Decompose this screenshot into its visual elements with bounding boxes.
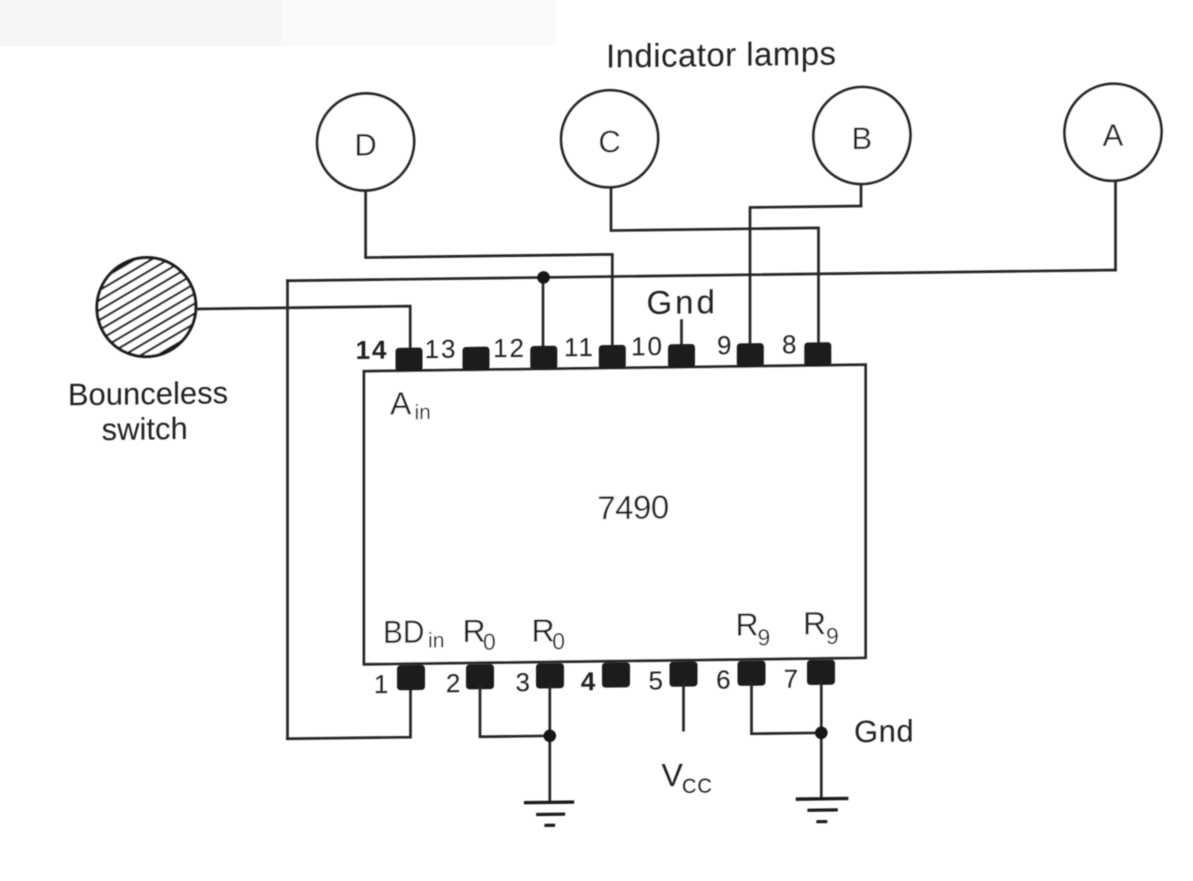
IC U1 7490 body bbox=[364, 365, 866, 665]
svg-text:4: 4 bbox=[581, 666, 596, 696]
svg-text:1: 1 bbox=[374, 669, 388, 699]
indicator lamp C bbox=[561, 90, 658, 188]
wire: switch to pin 14 bbox=[196, 306, 411, 359]
pin 1 bbox=[374, 665, 425, 699]
wire: lamp C to pin 8 bbox=[611, 185, 819, 354]
wire: lamp A drop bbox=[1114, 181, 1117, 270]
wire: bus left vertical bbox=[286, 281, 289, 739]
ground symbol (left) bbox=[526, 802, 573, 826]
svg-text:switch: switch bbox=[102, 411, 188, 447]
svg-text:R: R bbox=[532, 612, 555, 648]
pin 14 bbox=[356, 334, 423, 372]
pin 3 bbox=[516, 663, 564, 697]
svg-text:R: R bbox=[736, 606, 759, 642]
svg-text:Bounceless: Bounceless bbox=[68, 375, 228, 412]
pin 8 bbox=[782, 329, 831, 367]
pin 5 bbox=[649, 661, 698, 695]
svg-text:7: 7 bbox=[784, 664, 798, 694]
label: R0 (pin 2 function) bbox=[463, 613, 496, 655]
svg-text:C: C bbox=[598, 124, 620, 159]
svg-text:11: 11 bbox=[564, 332, 595, 362]
wire: pin 6 to pin 7 ground node bbox=[752, 682, 822, 733]
svg-text:A: A bbox=[1103, 118, 1124, 153]
svg-text:A: A bbox=[390, 385, 412, 421]
label: BDin (pin 1 function) bbox=[383, 613, 445, 653]
wire: bottom run to pin 1 bbox=[288, 688, 411, 739]
wire: pin 10 ground stub bbox=[680, 321, 683, 354]
wire: pin 3 to ground bbox=[548, 686, 551, 803]
svg-text:V: V bbox=[662, 757, 684, 793]
bounceless switch S1 bbox=[68, 257, 228, 448]
svg-text:in: in bbox=[428, 629, 445, 652]
wire: pin 7 to ground bbox=[820, 682, 823, 799]
wire: lamp B to pin 9 bbox=[750, 184, 861, 352]
wire: lamp D to pin 11 bbox=[366, 188, 613, 358]
pin 13 bbox=[425, 333, 490, 371]
pin 4 bbox=[581, 662, 630, 696]
wire: pin 12 to bus junction bbox=[542, 277, 545, 355]
svg-text:8: 8 bbox=[782, 329, 796, 359]
svg-text:14: 14 bbox=[356, 335, 389, 365]
svg-text:CC: CC bbox=[682, 775, 713, 797]
junction: bus / pin 12 bbox=[537, 271, 550, 284]
label: R9 (pin 7 function) bbox=[803, 605, 839, 649]
ground symbol (right) bbox=[797, 798, 846, 821]
pin 10 bbox=[631, 331, 695, 369]
pin 12 bbox=[493, 332, 557, 370]
svg-text:12: 12 bbox=[493, 333, 526, 363]
svg-text:D: D bbox=[354, 127, 376, 162]
svg-text:9: 9 bbox=[717, 330, 731, 360]
pin 11 bbox=[564, 331, 626, 369]
svg-text:3: 3 bbox=[516, 667, 530, 697]
indicator lamp D bbox=[317, 93, 414, 191]
svg-text:BD: BD bbox=[383, 613, 425, 650]
junction: pin6/pin7 ground node bbox=[815, 726, 828, 739]
svg-text:Indicator lamps: Indicator lamps bbox=[606, 35, 837, 75]
junction: pin2/pin3 ground node bbox=[544, 729, 557, 742]
svg-text:5: 5 bbox=[649, 665, 663, 695]
indicator lamp A bbox=[1065, 83, 1162, 181]
wire: pin 5 Vcc stub bbox=[682, 684, 685, 730]
svg-text:13: 13 bbox=[425, 334, 458, 364]
label: Ain (pin 14 function) bbox=[390, 385, 431, 425]
pin 9 bbox=[717, 330, 764, 368]
svg-text:in: in bbox=[415, 401, 431, 424]
svg-text:2: 2 bbox=[446, 668, 460, 698]
wire: pin 2 to pin 3 ground node bbox=[480, 686, 550, 737]
label: R0 (pin 3 function) bbox=[532, 612, 566, 654]
pin 7 bbox=[784, 660, 835, 694]
svg-text:Gnd: Gnd bbox=[854, 713, 914, 749]
svg-text:6: 6 bbox=[716, 665, 730, 695]
svg-text:R: R bbox=[803, 605, 826, 641]
pin 6 bbox=[716, 661, 765, 695]
svg-text:9: 9 bbox=[758, 624, 771, 650]
svg-text:9: 9 bbox=[826, 623, 839, 649]
svg-text:0: 0 bbox=[552, 628, 565, 654]
pin 2 bbox=[446, 664, 494, 698]
svg-text:10: 10 bbox=[631, 331, 664, 361]
svg-text:7490: 7490 bbox=[597, 488, 669, 526]
label: VCC bbox=[662, 756, 713, 798]
svg-text:Gnd: Gnd bbox=[647, 283, 718, 321]
svg-text:0: 0 bbox=[483, 629, 496, 655]
indicator lamp B bbox=[813, 86, 910, 184]
wire: QA bus (pin 12 to lamp A and to pin 1) bbox=[288, 270, 1116, 281]
svg-text:B: B bbox=[852, 121, 873, 156]
label: R9 (pin 6 function) bbox=[736, 606, 771, 651]
